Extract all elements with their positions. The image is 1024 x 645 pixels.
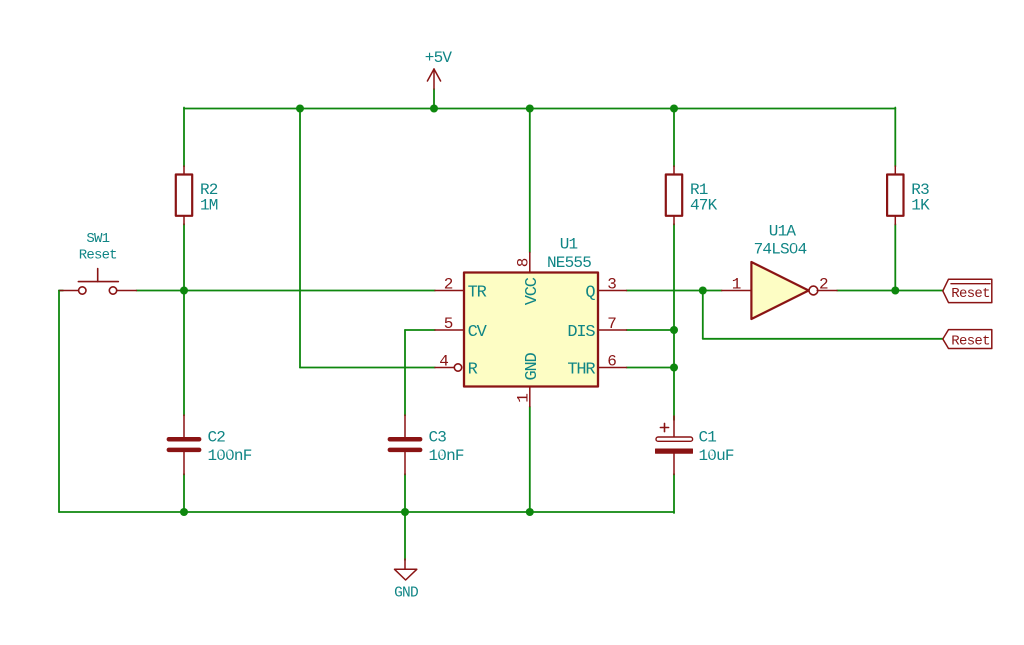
- wire VCC pin column: [529, 109, 531, 253]
- pin 2 output: [817, 290, 837, 292]
- hierarchical label Reset: [943, 330, 992, 350]
- junction bottom rail at pin1: [526, 508, 534, 516]
- junction bottom rail at GND: [401, 508, 409, 516]
- resistor R3: [887, 166, 930, 225]
- svg-text:Reset: Reset: [79, 247, 117, 263]
- wire CV to C3 horizontal: [405, 329, 435, 331]
- power symbol +5V: [425, 49, 453, 89]
- junction THR at R1 column: [670, 364, 678, 372]
- hierarchical label /Reset (active low): [943, 279, 992, 302]
- wire Q output net: [627, 290, 722, 292]
- svg-text:5: 5: [444, 315, 454, 333]
- wire C1 bottom lead: [673, 474, 675, 513]
- pin 1 input: [722, 290, 752, 292]
- svg-text:GND: GND: [523, 352, 542, 380]
- svg-text:VCC: VCC: [523, 277, 542, 305]
- wire reset pin column vertical: [299, 109, 301, 368]
- ground symbol GND: [394, 559, 418, 602]
- svg-text:10uF: 10uF: [699, 447, 734, 465]
- svg-text:C1: C1: [699, 429, 717, 447]
- svg-text:2: 2: [819, 275, 829, 293]
- ic U1 NE555: [435, 236, 627, 407]
- wire R1 bottom through DIS THR to C1: [673, 224, 675, 420]
- wire switch left corner: [59, 290, 63, 292]
- junction DIS at R1 column: [670, 326, 678, 334]
- svg-text:DIS: DIS: [567, 323, 595, 342]
- junction bottom rail at C2: [180, 508, 188, 516]
- svg-text:1: 1: [515, 393, 533, 403]
- svg-text:Q: Q: [585, 283, 595, 302]
- wire left vertical: [58, 291, 60, 513]
- wire inverter output net: [837, 290, 943, 292]
- switch SW1 push button: [60, 231, 136, 294]
- svg-text:6: 6: [607, 352, 617, 370]
- wire C2 bottom lead: [183, 474, 185, 512]
- svg-text:U1A: U1A: [769, 223, 797, 241]
- pin 2 TR: [435, 290, 464, 292]
- wire to Reset label lower: [703, 338, 943, 340]
- svg-text:2: 2: [444, 275, 454, 293]
- svg-text:8: 8: [515, 258, 533, 268]
- svg-text:1K: 1K: [911, 197, 930, 215]
- wire R1 top lead: [673, 109, 675, 167]
- junction top rail at VCC: [526, 105, 534, 113]
- pin 8 VCC: [529, 253, 531, 273]
- pin 1 GND: [529, 387, 531, 407]
- svg-text:3: 3: [607, 275, 617, 293]
- svg-text:CV: CV: [468, 323, 488, 342]
- junction top rail at reset column: [296, 105, 304, 113]
- wire to pin 4 R: [300, 367, 435, 369]
- wire C2 top lead: [183, 291, 185, 416]
- capacitor C2: [167, 415, 252, 475]
- wire R2 top lead drop: [183, 108, 185, 167]
- svg-text:THR: THR: [567, 360, 595, 379]
- svg-text:Reset: Reset: [951, 333, 990, 349]
- wire THR link: [627, 367, 675, 369]
- svg-text:SW1: SW1: [86, 231, 109, 247]
- svg-text:C2: C2: [208, 429, 226, 447]
- svg-text:7: 7: [607, 315, 617, 333]
- svg-text:Reset: Reset: [951, 286, 990, 302]
- pin 3 Q: [598, 290, 627, 292]
- svg-text:TR: TR: [468, 283, 487, 302]
- svg-text:4: 4: [439, 352, 449, 370]
- wire C3 column: [404, 330, 406, 416]
- junction TR net at R2: [180, 287, 188, 295]
- svg-text:U1: U1: [560, 236, 578, 254]
- resistor R1: [666, 166, 718, 225]
- svg-text:C3: C3: [429, 429, 447, 447]
- wire R2 bottom to TR net: [183, 224, 185, 291]
- resistor R2: [176, 166, 218, 225]
- wire GND pin column: [529, 407, 531, 513]
- wire C3 bottom lead: [404, 474, 406, 512]
- pin 7 DIS: [598, 329, 627, 331]
- capacitor C1 polarized: [655, 416, 734, 475]
- pin 4 R inverted: [435, 367, 454, 369]
- svg-text:10nF: 10nF: [429, 447, 464, 465]
- inverter U1A 74LS04: [722, 223, 837, 319]
- wire TR net horizontal: [136, 290, 435, 292]
- svg-text:100nF: 100nF: [208, 447, 252, 465]
- junction top rail at +5V: [430, 105, 438, 113]
- wire DIS link: [627, 329, 675, 331]
- svg-text:1: 1: [732, 275, 742, 293]
- svg-text:74LS04: 74LS04: [754, 241, 807, 259]
- pin 5 CV: [435, 329, 464, 331]
- capacitor C3: [388, 415, 464, 475]
- svg-text:NE555: NE555: [547, 254, 591, 272]
- svg-text:47K: 47K: [690, 197, 718, 215]
- wire +5V stub: [433, 89, 435, 109]
- wire bottom ground rail: [59, 511, 674, 513]
- wire branch down from Q: [702, 291, 704, 339]
- wire top +5V rail: [184, 108, 895, 110]
- junction Q net branch: [699, 287, 707, 295]
- svg-text:1M: 1M: [200, 197, 218, 215]
- junction top rail at R1: [670, 105, 678, 113]
- wire R3 bottom: [894, 224, 896, 291]
- pin 6 THR: [598, 367, 627, 369]
- svg-text:GND: GND: [394, 586, 418, 602]
- svg-text:+5V: +5V: [425, 49, 453, 67]
- wire R3 top lead: [894, 108, 896, 167]
- wire GND drop: [404, 512, 406, 560]
- junction output net at R3: [891, 287, 899, 295]
- svg-text:R: R: [468, 360, 478, 379]
